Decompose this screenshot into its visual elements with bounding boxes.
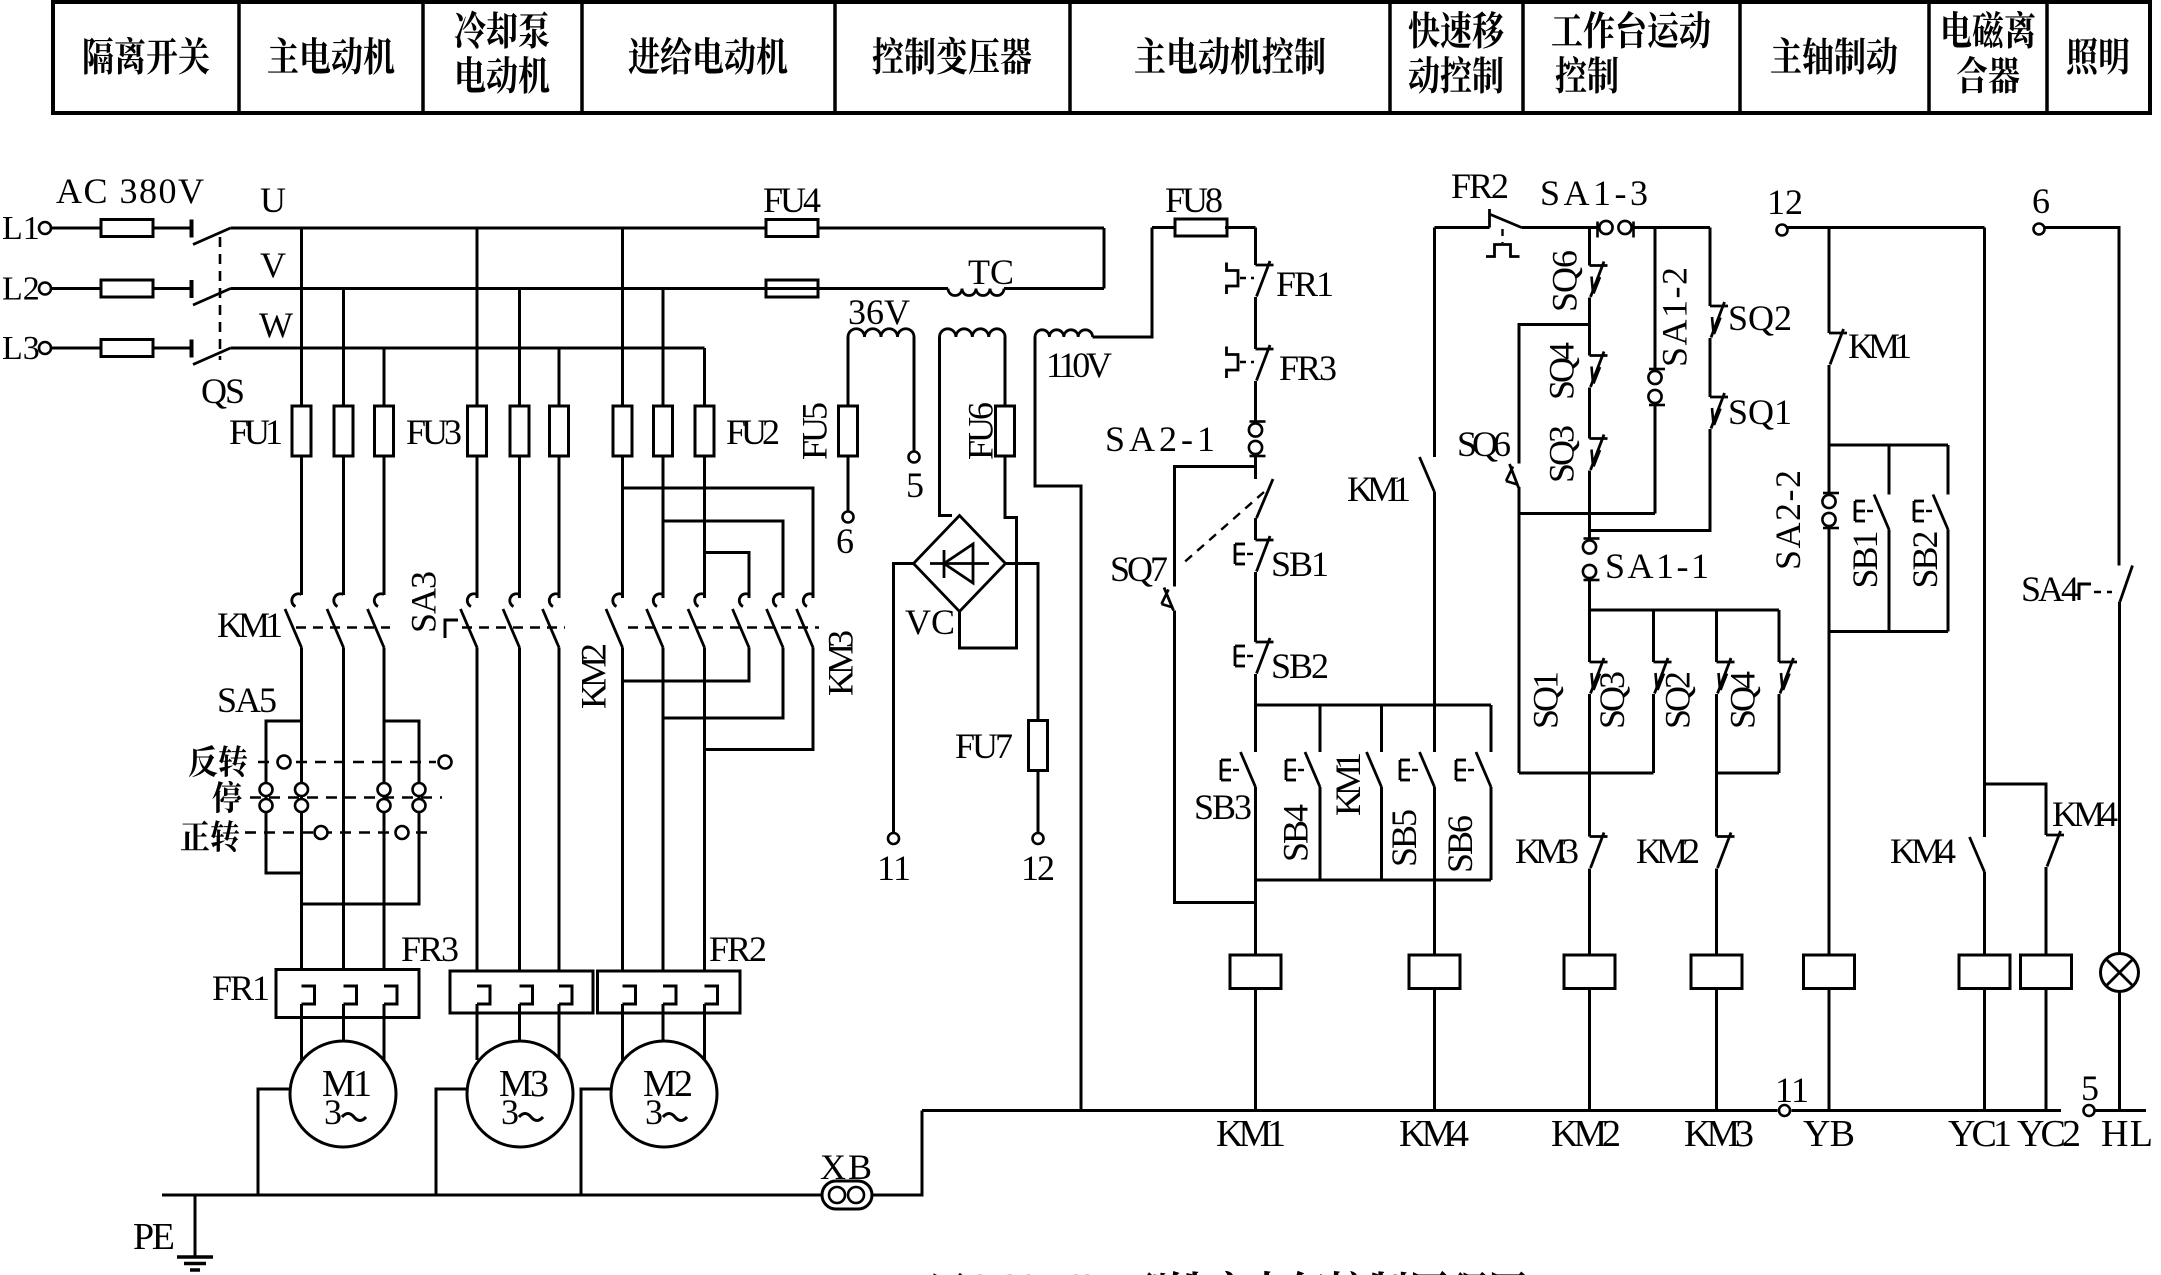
- wire SA1-3 to corner: [1632, 226, 1710, 229]
- fuse FU2-2: [654, 406, 673, 456]
- FR2 heater element 1: [623, 986, 636, 1004]
- svg-text:FU2: FU2: [726, 412, 780, 452]
- wire VC minus to 11: [894, 564, 914, 834]
- wire XB to control common: [872, 1111, 922, 1196]
- svg-text:KM2: KM2: [574, 643, 614, 709]
- label L1: [2, 210, 40, 247]
- motor M2 circle: [611, 1041, 717, 1147]
- svg-text:SQ2: SQ2: [1658, 671, 1698, 729]
- ground PE symbol: [177, 1257, 213, 1270]
- wire rect secondary left to VC: [940, 337, 953, 516]
- label 12 (rail): [1767, 182, 1803, 222]
- wire SQ6 NO down: [1518, 487, 1521, 773]
- svg-text:FR2: FR2: [1451, 166, 1509, 206]
- wire M2 phase 2 to FR2: [662, 648, 665, 987]
- label KM1 (coil): [1216, 1113, 1286, 1155]
- wire YC2 coil to bus: [2045, 989, 2048, 1111]
- rectifier VC diode: [930, 544, 989, 583]
- wire M3 phase 3 to FR3: [558, 648, 561, 987]
- contact SQ7 (on main column): [1257, 479, 1274, 518]
- switch QS pole 2: [192, 280, 231, 305]
- label FU2: [726, 412, 780, 452]
- svg-text:KM1: KM1: [1328, 752, 1368, 816]
- label FR1 (contact): [1276, 264, 1334, 304]
- wire SQ6 bypass: [1519, 325, 1590, 464]
- wire V bus right of TC: [1004, 287, 1104, 290]
- label KM1 (main contacts): [217, 605, 283, 645]
- pushbutton SB6: [1456, 705, 1491, 787]
- svg-text:2-30: 2-30: [973, 1268, 1037, 1275]
- SA4 handle hook: [2079, 584, 2112, 600]
- switch QS pole 3: [192, 340, 231, 365]
- label KM4 (NC contact): [2052, 794, 2118, 834]
- svg-text:W: W: [259, 305, 293, 345]
- switch SA2-2 contact: [1822, 445, 1839, 528]
- label SA2-2 (rotated): [1768, 470, 1808, 570]
- SA5 reverse contact circles: [278, 756, 452, 769]
- terminal 6 (36V): [843, 512, 854, 523]
- wire FR3 to SA2-1: [1254, 381, 1257, 424]
- wire PE drop: [194, 1195, 197, 1257]
- header label 主电动机控制: [1135, 37, 1325, 75]
- label FU3: [406, 412, 462, 452]
- header table frame: [53, 2, 2150, 113]
- svg-text:KM1: KM1: [1347, 469, 1411, 509]
- svg-text:KM2: KM2: [1551, 1113, 1621, 1155]
- label SA3 (rotated): [404, 571, 444, 633]
- svg-text:SB3: SB3: [1194, 787, 1252, 827]
- svg-text:KM2: KM2: [1636, 831, 1700, 871]
- FR1 heater element 2: [344, 986, 357, 1004]
- wire KM4 coil to bus: [1433, 989, 1436, 1111]
- label SQ4 (rotated upper): [1542, 342, 1582, 400]
- wire KM1 aux down: [1380, 787, 1383, 880]
- svg-text:SQ2: SQ2: [1728, 298, 1792, 338]
- switch QS pole 1: [192, 220, 231, 245]
- fuse incoming L3: [51, 340, 190, 357]
- wire KM1 rapid to rail: [1433, 492, 1436, 752]
- svg-text:SQ7: SQ7: [1110, 549, 1168, 589]
- fuse FU4-1: [766, 220, 818, 237]
- svg-text:FR1: FR1: [212, 968, 270, 1008]
- svg-text:FU4: FU4: [763, 180, 821, 220]
- header column divider 2: [421, 2, 425, 113]
- wire M1 W to motor: [383, 1004, 386, 1060]
- wire SQ4 to SQ3: [1588, 388, 1591, 439]
- fuse incoming L2: [51, 280, 190, 297]
- fuse FU3-1: [468, 406, 487, 456]
- svg-text:3: 3: [501, 1092, 519, 1132]
- contactor KM2 main contact 1: [606, 594, 623, 648]
- label M1: [322, 1063, 372, 1105]
- header label 控制变压器: [873, 37, 1032, 75]
- svg-text:SB6: SB6: [1440, 815, 1480, 873]
- wire SQ2 lower drop: [1715, 610, 1718, 662]
- contactor KM2 main contact 2: [647, 594, 664, 648]
- pushbutton SB1 (brake): [1855, 445, 1889, 530]
- label FU4: [763, 180, 821, 220]
- wire SA2-2 down: [1828, 527, 1831, 632]
- svg-text:36V: 36V: [848, 292, 910, 332]
- svg-text:FR3: FR3: [1279, 348, 1337, 388]
- limit switch SQ4 contact (lower): [1779, 658, 1797, 694]
- wire control bus right: [2096, 1109, 2147, 1112]
- wire 110V right to FU8: [1093, 228, 1153, 338]
- wire W bus: [231, 347, 705, 350]
- fuse FU6: [996, 406, 1015, 456]
- label SB2 (rotated): [1905, 531, 1945, 589]
- switch SA3 contact 3: [543, 594, 560, 648]
- wire SA1-2 drop: [1654, 228, 1657, 372]
- wire M2 W to motor: [703, 1004, 706, 1060]
- terminal L1: [39, 222, 51, 234]
- terminal 11 (bus): [1779, 1105, 1790, 1116]
- wire M3 PE: [436, 1089, 467, 1195]
- label KM1 (rapid contact): [1347, 469, 1411, 509]
- contact KM1 aux (rapid): [1420, 457, 1435, 492]
- label PE: [133, 1216, 175, 1258]
- wire U bus: [231, 227, 1105, 230]
- contact KM3 interlock (NC): [1590, 833, 1608, 869]
- svg-text:SA5: SA5: [217, 680, 277, 720]
- header label 工作台运动控制: [1552, 11, 1710, 94]
- wire start rail bottom: [1256, 879, 1492, 882]
- QS linkage dashed: [219, 237, 222, 360]
- wire KM3 c2 join: [663, 648, 783, 719]
- wire SA4 to lamp: [2118, 602, 2121, 954]
- label TC: [968, 252, 1014, 292]
- wire U-V link at TC right: [1103, 228, 1106, 289]
- contactor KM1 main contact 2: [327, 594, 344, 648]
- limit switch SQ3 contact (lower): [1654, 658, 1672, 694]
- wire M2 PE: [581, 1089, 611, 1195]
- wire SQ3 to box bottom: [1588, 471, 1591, 514]
- thermal contact FR2: [1490, 209, 1522, 228]
- header column divider 4: [833, 2, 837, 113]
- wire M3 phase 2 drop: [518, 289, 521, 599]
- KM1 main linkage dashed: [296, 626, 390, 629]
- label KM4 (coil): [1399, 1113, 1469, 1155]
- label 12 (VC): [1021, 848, 1055, 888]
- label FR1: [212, 968, 270, 1008]
- label YB: [1803, 1113, 1855, 1155]
- transformer rectifier secondary winding: [940, 329, 1006, 337]
- contact KM1 aux (self hold): [1367, 705, 1382, 787]
- fuse FU1-2: [334, 406, 353, 456]
- FR2 reset symbol: [1486, 229, 1520, 257]
- wire box bottom rail: [1519, 512, 1655, 515]
- wire to KM1 coil: [1254, 880, 1257, 955]
- limit switch SQ1 contact (upper): [1710, 393, 1728, 429]
- pushbutton SB1 (stop): [1235, 536, 1274, 572]
- label KM2 (rotated): [574, 643, 614, 709]
- wire FU6 to VC bottom: [960, 456, 1017, 648]
- fuse FU2-3: [695, 406, 714, 456]
- contact SQ4 (upper): [1590, 325, 1608, 388]
- label KM3 (rotated): [821, 630, 861, 696]
- thermal relay FR3 heater box: [450, 971, 593, 1013]
- svg-text:KM4: KM4: [1399, 1113, 1469, 1155]
- fuse FU3-3: [550, 406, 569, 456]
- limit switch SQ7 contact: [1162, 588, 1174, 611]
- fuse FU3-2: [510, 406, 529, 456]
- svg-text:FU5: FU5: [795, 402, 835, 460]
- label AC 380V: [56, 171, 204, 211]
- wire start rail top: [1256, 704, 1492, 707]
- wire 110V left rail: [1035, 337, 1081, 1111]
- label SA1-1: [1605, 546, 1709, 586]
- label SQ2 (upper): [1728, 298, 1792, 338]
- switch SA1-1 contact: [1583, 539, 1600, 581]
- wire SA2-1 bypass: [1175, 467, 1256, 587]
- fuse FU8: [1152, 219, 1256, 236]
- contactor KM3 main contact 2: [767, 594, 784, 648]
- SQ7 linkage dashed: [1180, 492, 1264, 566]
- wire SA2-1 to SQ7 contact: [1254, 455, 1257, 479]
- switch SA5 right loop: [302, 721, 420, 904]
- terminal 12 (rail): [1777, 225, 1788, 236]
- FR2 heater element 2: [663, 986, 676, 1004]
- label 反转: [189, 745, 247, 777]
- limit switch SQ2 contact (lower): [1717, 658, 1735, 694]
- switch SA1-2 contact: [1648, 369, 1665, 405]
- label 5 (bus): [2081, 1068, 2099, 1108]
- label 6 (rail): [2032, 181, 2050, 221]
- wire brake rail bottom: [1829, 630, 1948, 633]
- wire SB1 to SB2: [1254, 572, 1257, 642]
- label KM3 (coil): [1684, 1113, 1754, 1155]
- label SA5: [217, 680, 277, 720]
- thermal contact FR1: [1227, 261, 1274, 297]
- label 36V: [848, 292, 910, 332]
- svg-text:3: 3: [645, 1092, 663, 1132]
- contact SQ3 (upper): [1590, 435, 1608, 471]
- svg-text:SQ6: SQ6: [1457, 424, 1511, 464]
- wire FU8 to FR1 contact: [1254, 228, 1257, 266]
- wire FR2 feed column: [1433, 228, 1436, 458]
- svg-text:FR3: FR3: [401, 929, 459, 969]
- SA5 stop contact circles: [260, 783, 426, 812]
- wire M1 phase 1 drop: [300, 228, 303, 595]
- svg-text:12: 12: [1021, 848, 1055, 888]
- pushbutton SB4 (start): [1286, 705, 1320, 787]
- svg-text:KM1: KM1: [1216, 1113, 1286, 1155]
- wire M1 phase 1 to FR1: [300, 648, 303, 987]
- wire clutch feed drop: [1983, 228, 1986, 838]
- label FR2: [709, 929, 767, 969]
- wire 36V left to FU5: [847, 337, 850, 512]
- svg-text:SQ6: SQ6: [1545, 250, 1585, 312]
- SA3 handle hook: [445, 620, 458, 638]
- pushbutton SB3 (start): [1221, 705, 1256, 787]
- terminal 5 (36V): [909, 452, 920, 463]
- wire SQ2 to SQ1: [1709, 338, 1712, 397]
- pushbutton SB5: [1400, 752, 1435, 787]
- label SB1 (rotated): [1845, 531, 1885, 589]
- svg-text:QS: QS: [201, 371, 245, 411]
- wire KM1 brake to rail: [1828, 365, 1831, 445]
- svg-text:SB5: SB5: [1384, 809, 1424, 867]
- wire branch U to KM3 right: [623, 488, 814, 598]
- svg-text:SA4: SA4: [2021, 569, 2079, 609]
- thermal relay FR2 heater box: [598, 971, 741, 1013]
- svg-text:SQ4: SQ4: [1723, 671, 1763, 729]
- coil KM1: [1230, 955, 1281, 989]
- FR3 heater element 3: [559, 986, 572, 1004]
- label KM2 (coil): [1551, 1113, 1621, 1155]
- wire M1 U to motor: [300, 1004, 303, 1060]
- wire M2 phase 3 to FR2: [703, 648, 706, 987]
- svg-text:FU1: FU1: [229, 412, 283, 452]
- svg-text:SA2-1: SA2-1: [1105, 419, 1215, 459]
- fuse FU4-2: [766, 280, 818, 297]
- label HL: [2101, 1113, 2153, 1155]
- wire KM3 rail: [1519, 772, 1654, 775]
- thermal relay FR1 heater box: [276, 970, 419, 1018]
- svg-text:SA1-2: SA1-2: [1655, 267, 1695, 367]
- terminal 6 (rail): [2034, 224, 2045, 235]
- label M2 3~: [645, 1092, 687, 1132]
- svg-text:SB1: SB1: [1271, 544, 1329, 584]
- label YC2: [2017, 1113, 2081, 1155]
- wire to SB1: [1254, 518, 1257, 540]
- coil YC1: [1959, 955, 2010, 989]
- svg-text:SQ3: SQ3: [1592, 671, 1632, 729]
- svg-text:AC 380V: AC 380V: [56, 171, 204, 211]
- wire FR1 to FR3: [1254, 297, 1257, 349]
- label SQ3 (rotated lower): [1592, 671, 1632, 729]
- svg-text:6: 6: [2032, 181, 2050, 221]
- wire SQ7 to bypass bottom: [1175, 611, 1256, 903]
- label FR2 (contact): [1451, 166, 1509, 206]
- header column divider 5: [1068, 2, 1072, 113]
- FR1 heater element 1: [302, 986, 315, 1004]
- thermal contact FR3: [1227, 345, 1274, 381]
- wire 6 rail: [2045, 228, 2120, 566]
- label SQ6 (NO): [1457, 424, 1511, 464]
- label VC: [905, 602, 955, 642]
- svg-text:11: 11: [877, 848, 911, 888]
- label KM1 aux (rotated): [1328, 752, 1368, 816]
- wire M1 phase 2 to FR1: [342, 648, 345, 987]
- svg-text:SQ1: SQ1: [1526, 671, 1566, 729]
- label SQ1 (rotated lower): [1526, 671, 1566, 729]
- svg-text:L3: L3: [2, 330, 40, 367]
- wire SQ2 lower down: [1715, 694, 1718, 773]
- limit switch SQ6 contact (NO): [1506, 464, 1519, 488]
- wire KM3 coil to bus: [1715, 989, 1718, 1111]
- label SQ6 (rotated): [1545, 250, 1585, 312]
- label SA1-2 (rotated): [1655, 267, 1695, 367]
- wire KM2 to KM3 coil: [1715, 869, 1718, 956]
- transformer 110V secondary winding: [1035, 330, 1093, 337]
- wire 12 rail: [1788, 226, 1985, 229]
- wire KM4 NC to YC2 coil: [2045, 867, 2048, 955]
- wire SB2 to start rail: [1254, 674, 1257, 705]
- label M3 3~: [501, 1092, 543, 1132]
- svg-text:TC: TC: [968, 252, 1014, 292]
- FR3 heater element 2: [520, 986, 533, 1004]
- switch SA5 left loop: [266, 721, 302, 873]
- pushbutton SB2 (stop): [1235, 638, 1274, 674]
- wire YC2 branch: [1985, 784, 2047, 835]
- label 5 (36V): [906, 465, 924, 505]
- contactor KM1 main contact 1: [285, 594, 302, 648]
- wire to SA1-1: [1588, 514, 1591, 542]
- svg-text:FR2: FR2: [709, 929, 767, 969]
- SA5 row reverse dashed: [258, 761, 436, 764]
- wire M3 V to motor: [518, 1004, 521, 1041]
- SA5 forward contact circles: [315, 826, 409, 839]
- terminal L3: [39, 342, 51, 354]
- svg-text:SQ3: SQ3: [1542, 425, 1582, 483]
- wire SQ2 drop: [1709, 228, 1712, 307]
- header column divider 7: [1521, 2, 1525, 113]
- wire control bus mid: [1792, 1109, 2062, 1112]
- label SB4 (rotated): [1276, 804, 1316, 862]
- label KM2 (interlock): [1636, 831, 1700, 871]
- label SQ4 (rotated lower): [1723, 671, 1763, 729]
- label 11 (VC): [877, 848, 911, 888]
- label KM3 (interlock): [1515, 831, 1579, 871]
- wire brake rail top: [1829, 444, 1948, 447]
- wire SQ6 drop: [1588, 228, 1591, 266]
- wire lamp to bus: [2118, 992, 2121, 1111]
- svg-text:3: 3: [324, 1092, 342, 1132]
- svg-text:L1: L1: [2, 210, 40, 247]
- wire SA1-1 to SQ rail: [1588, 579, 1591, 610]
- svg-text:KM1: KM1: [217, 605, 283, 645]
- svg-text:SB4: SB4: [1276, 804, 1316, 862]
- rectifier VC diamond: [914, 516, 1006, 612]
- wire SQ4 lower drop: [1778, 610, 1781, 662]
- svg-text:SB1: SB1: [1845, 531, 1885, 589]
- wire SQ rail: [1590, 609, 1780, 612]
- wire M1 PE: [258, 1089, 290, 1195]
- header column divider 8: [1738, 2, 1742, 113]
- fuse FU7: [1029, 721, 1048, 771]
- pushbutton SB2 (brake): [1914, 445, 1948, 530]
- wire M1 phase 2 drop: [342, 289, 345, 596]
- label U: [260, 180, 286, 220]
- wire KM2 coil to bus: [1588, 989, 1591, 1111]
- header label 照明: [2067, 37, 2129, 74]
- label FU6 (rotated): [961, 402, 1001, 460]
- header label 冷却泵电动机: [455, 11, 550, 94]
- svg-text:YB: YB: [1803, 1113, 1855, 1155]
- wire to KM3 interlock: [1588, 773, 1591, 837]
- svg-text:KM4: KM4: [1890, 831, 1956, 871]
- wire KM3 c1 join: [623, 648, 750, 682]
- wire M3 phase 2 to FR3: [518, 648, 521, 987]
- wire SB2 brake down: [1947, 530, 1950, 632]
- label XB: [820, 1147, 872, 1187]
- label W: [259, 305, 293, 345]
- wire M3 phase 1 to FR3: [476, 648, 479, 987]
- wire FR2 line left: [1435, 226, 1490, 229]
- header column divider 3: [580, 2, 584, 113]
- coil YC2: [2021, 955, 2072, 989]
- label SQ3 (rotated upper): [1542, 425, 1582, 483]
- wire M3 phase 3 drop: [558, 348, 561, 598]
- label SQ1 (upper): [1728, 392, 1792, 432]
- wire FR2 to SA1-3: [1522, 226, 1600, 229]
- wire YB coil to bus: [1828, 989, 1831, 1111]
- limit switch SQ1 contact (lower): [1590, 658, 1608, 694]
- label SB3: [1194, 787, 1252, 827]
- header column divider 1: [237, 2, 241, 113]
- label 6 (36V): [836, 521, 854, 561]
